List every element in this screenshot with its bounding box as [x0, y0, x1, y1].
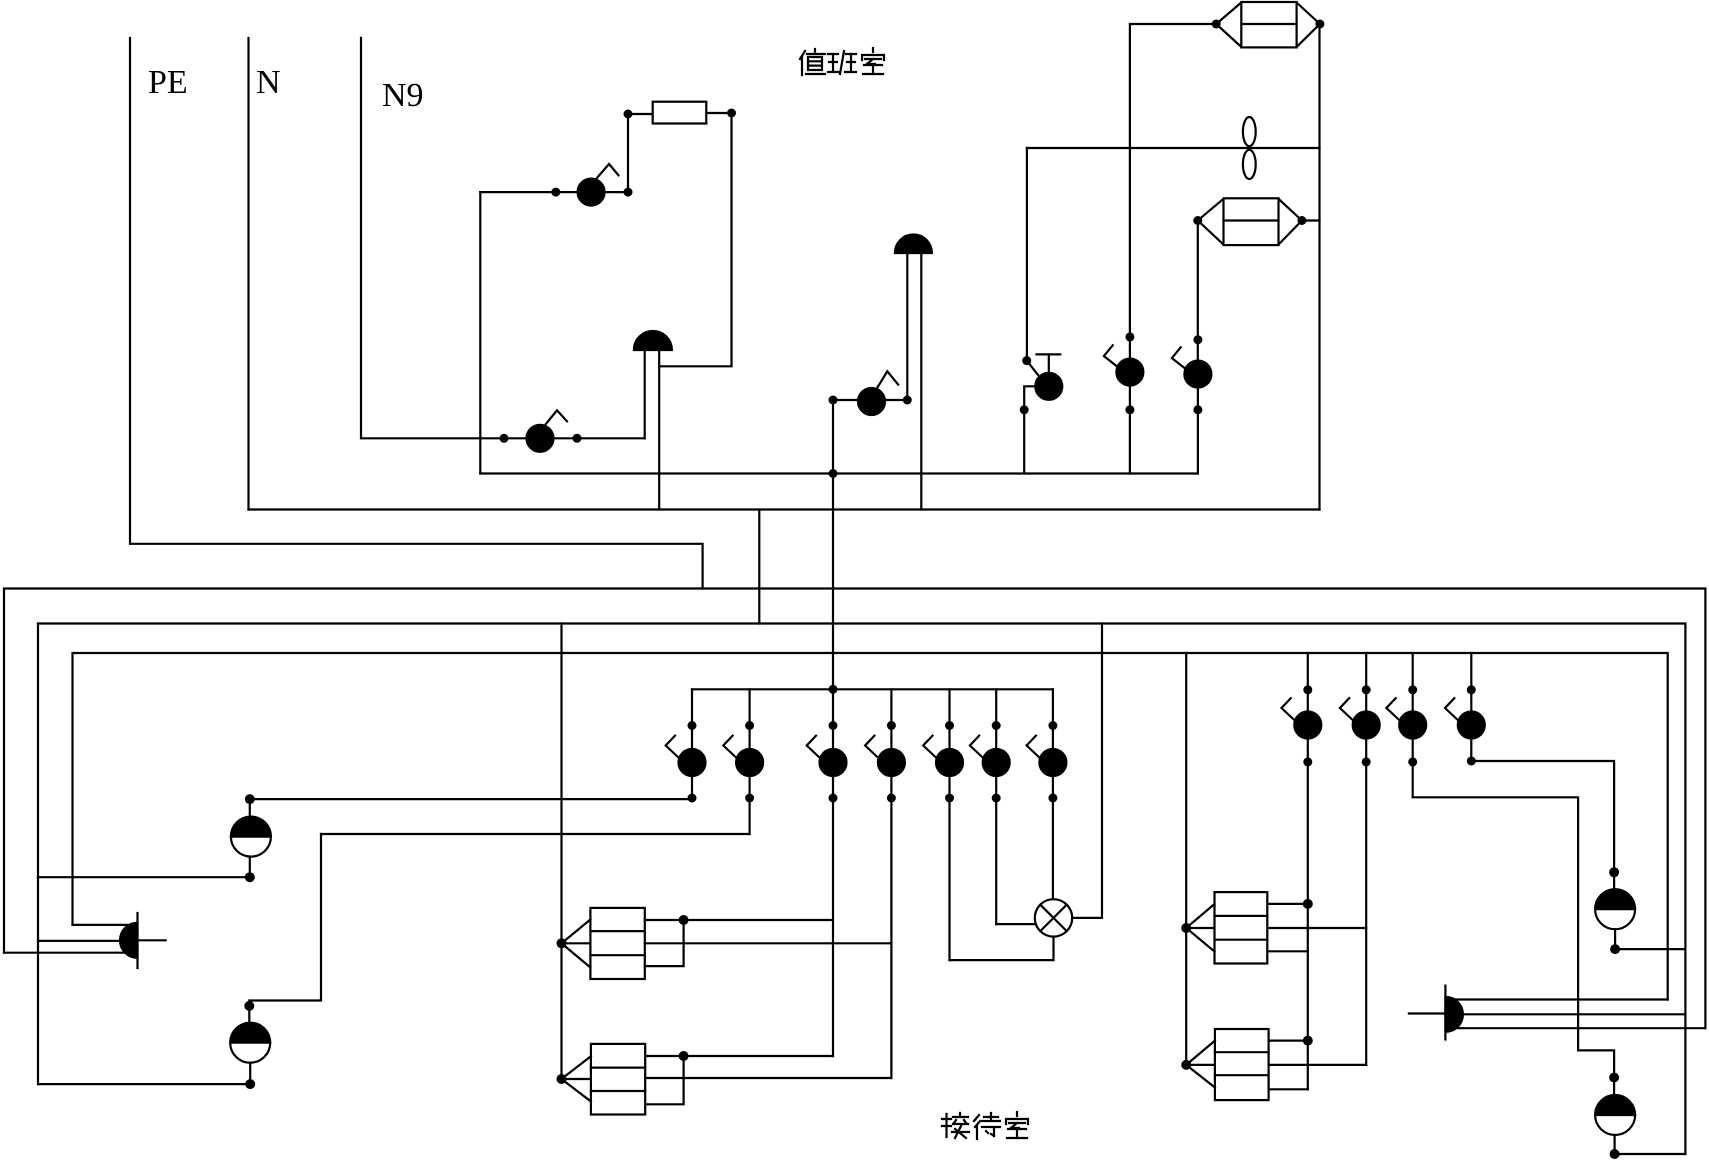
wire bus L2 (N) — [38, 624, 1685, 1155]
wire F3 middle to K9 — [1267, 927, 1366, 929]
switch S2 — [578, 164, 619, 206]
wire fixture feed drop (left group) — [560, 624, 562, 1080]
lamp EL3 (circle-X) — [1035, 899, 1072, 936]
wire F4 bottom stub — [1269, 1088, 1308, 1090]
wire lamp bottom to K5 — [950, 937, 1054, 961]
wire EL2 right stub — [1302, 219, 1320, 221]
fluorescent fixture F1 (3-tube, left upper) — [562, 908, 645, 979]
switch S3 (bell push) — [858, 371, 898, 415]
wire F1 middle to K4 — [645, 942, 892, 944]
wire fixture feed drop (right group) — [1185, 653, 1187, 1065]
wire F3 top stub — [1267, 903, 1308, 905]
junction dot S3 right — [903, 396, 912, 405]
junction dot XS1 top — [245, 794, 255, 804]
bell HA2 (dome) — [895, 235, 932, 253]
wire S3 drop to lower bus — [832, 400, 834, 689]
wire K6 to lamp — [996, 923, 1035, 925]
wire F4 middle to K9 — [1269, 1064, 1367, 1066]
junction dot F2 stub — [679, 1051, 689, 1061]
wire F4 top stub — [1269, 1039, 1308, 1041]
wire S1 to bell branch — [554, 437, 645, 439]
switch K10 — [1386, 653, 1426, 797]
junction dot XS3 bottom — [1610, 944, 1620, 954]
wire L2 to socket XS2 bottom — [38, 1083, 250, 1085]
wire S3 right — [885, 399, 907, 401]
wire F1 stub link — [645, 920, 684, 966]
junction dot XS1 bottom — [245, 872, 255, 882]
wire S3 left — [833, 399, 858, 401]
wire S2 right — [605, 191, 628, 193]
switch SA body — [1027, 354, 1063, 399]
wire L2 to socket XS3 bottom — [1615, 948, 1685, 950]
junction dot XS4 bottom — [1610, 1149, 1620, 1159]
socket XS1 (left top) — [231, 799, 271, 877]
switch SC — [1172, 347, 1212, 387]
wire L2 to socket XS1 bottom — [38, 876, 250, 878]
wire L2 to wall lamp right middle — [1456, 1013, 1685, 1015]
wire F1 top stub — [645, 919, 833, 921]
switch S1 — [527, 410, 568, 452]
junction dot EL1 left — [1212, 20, 1221, 29]
wire XS2 top lead — [249, 834, 321, 1006]
wire S2 left — [480, 191, 578, 193]
wire resistor to bell lead — [659, 113, 731, 366]
wire SA out — [1024, 386, 1035, 473]
junction dot XS3 top — [1609, 867, 1619, 877]
wire N feed drop — [758, 510, 760, 624]
junction dot fixture feed upper apex — [557, 938, 567, 948]
switch K8 — [1282, 653, 1322, 1089]
bus N — [247, 38, 249, 510]
junction dot SB bottom — [1125, 405, 1134, 414]
junction dot right feed lower apex — [1181, 1060, 1191, 1070]
wire L2 to socket XS4 bottom — [1615, 1153, 1686, 1155]
wire bell HA1 right lead — [658, 350, 660, 510]
junction dot S1 right — [573, 434, 582, 443]
junction dot resistor left — [624, 110, 633, 119]
junction dot fixture feed lower apex — [557, 1074, 567, 1084]
wire EL2 left lead — [1197, 221, 1199, 361]
label 接待室 (reception room) — [942, 1112, 1028, 1139]
wire F2 top stub — [645, 1055, 833, 1057]
wall lamp WL2 (right) — [1409, 986, 1463, 1040]
wire left loop vertical — [479, 192, 481, 473]
junction dot XS2 top — [244, 1001, 254, 1011]
wire bell HA2 right lead — [920, 253, 922, 510]
wire lamp right to N drop — [1072, 624, 1102, 918]
socket XS4 (right bottom) — [1595, 1078, 1635, 1155]
fluorescent fixture F2 (3-tube, left lower) — [562, 1044, 646, 1115]
junction dot F3 stub — [1303, 899, 1313, 909]
wire N line — [249, 508, 1320, 510]
wire K2 to XS2 — [321, 833, 750, 835]
wall lamp WL1 (left) — [120, 913, 166, 968]
wire bus L3 — [73, 653, 1668, 1000]
switch SB — [1104, 345, 1144, 385]
fan M1 — [1243, 117, 1256, 179]
wire bus L1 (PE) — [4, 589, 1705, 1029]
junction dot S2 right — [624, 188, 633, 197]
switch K5 — [923, 689, 963, 960]
junction dot F4 stub — [1303, 1036, 1313, 1046]
junction dot right feed upper apex — [1181, 923, 1191, 933]
wire 7-switch bus — [692, 688, 1053, 690]
junction dot F1 stub — [679, 915, 689, 925]
wire SC down — [1197, 388, 1199, 474]
svg-text:PE: PE — [148, 64, 188, 101]
switch K6 — [970, 689, 1010, 924]
junction dot SC top — [1193, 335, 1202, 344]
switch SA (T-handle) — [1026, 148, 1028, 361]
wire resistor right — [706, 112, 731, 114]
wire XS1 top lead — [250, 798, 692, 800]
junction dot S1 left — [500, 434, 509, 443]
wire bell HA2 left lead — [906, 253, 908, 400]
junction dot SC bottom — [1193, 405, 1202, 414]
junction dot SB top — [1125, 332, 1134, 341]
wire S2 to resistor — [628, 114, 653, 192]
switch K4 — [865, 689, 905, 1078]
junction dot S2 left — [551, 188, 560, 197]
junction dot SA out — [1020, 405, 1029, 414]
label 值班室 (duty room) — [800, 48, 884, 75]
switch K2 — [723, 689, 763, 834]
bus PE — [130, 38, 703, 589]
switch K1 — [666, 689, 706, 802]
wire EL1 right lead — [1318, 24, 1320, 510]
wire L3 to wall lamp left top — [73, 924, 129, 926]
junction dot resistor right — [727, 109, 736, 118]
svg-text:N9: N9 — [382, 77, 424, 114]
wire common line — [480, 472, 1198, 474]
socket XS2 (left bottom) — [230, 1006, 270, 1084]
resistor R1 — [653, 102, 707, 124]
wire F3 bottom stub — [1267, 950, 1308, 952]
wire EL1 left lead — [1130, 24, 1216, 359]
switch K11 — [1445, 653, 1485, 766]
junction dot SA top — [1022, 356, 1031, 365]
wire L1 to wall lamp left — [4, 952, 128, 954]
junction dot XS2 bottom — [245, 1079, 255, 1089]
wire K10 to socket XS4 top — [1413, 797, 1614, 1077]
fluorescent fixture F3 (3-tube, right upper) — [1186, 892, 1267, 963]
junction dot common line — [829, 469, 838, 478]
wire F2 middle to K4 — [645, 1077, 891, 1079]
svg-text:N: N — [256, 64, 281, 101]
wire F2 stub link — [645, 1056, 683, 1104]
wire L2 to wall lamp left middle — [38, 940, 128, 942]
junction dot S3 left — [829, 396, 838, 405]
junction dot XS4 top — [1609, 1073, 1619, 1083]
switch K3 — [807, 689, 847, 1056]
socket XS3 (right middle) — [1595, 872, 1635, 949]
fluorescent lamp EL2 — [1198, 198, 1302, 245]
switch K9 — [1340, 653, 1380, 1065]
wire L3 to wall lamp right top — [1456, 998, 1668, 1000]
wire K11 to socket XS3 top — [1471, 761, 1614, 872]
wire SB down — [1129, 386, 1131, 474]
junction dot EL2 right — [1297, 216, 1306, 225]
bell HA1 (dome) — [634, 331, 672, 350]
wire fan line — [1027, 147, 1320, 149]
junction dot EL2 left — [1193, 216, 1202, 225]
fluorescent lamp EL1 (top) — [1216, 2, 1320, 47]
wire bell HA1 left lead — [644, 350, 646, 438]
switch K7 — [1027, 689, 1067, 899]
junction dot EL1 right — [1315, 20, 1324, 29]
bus N9 — [361, 38, 527, 438]
fluorescent fixture F4 (3-tube, right lower) — [1186, 1029, 1268, 1100]
wire L1 to wall lamp right — [1456, 1027, 1705, 1029]
junction dot 7-switch bus — [829, 685, 838, 694]
